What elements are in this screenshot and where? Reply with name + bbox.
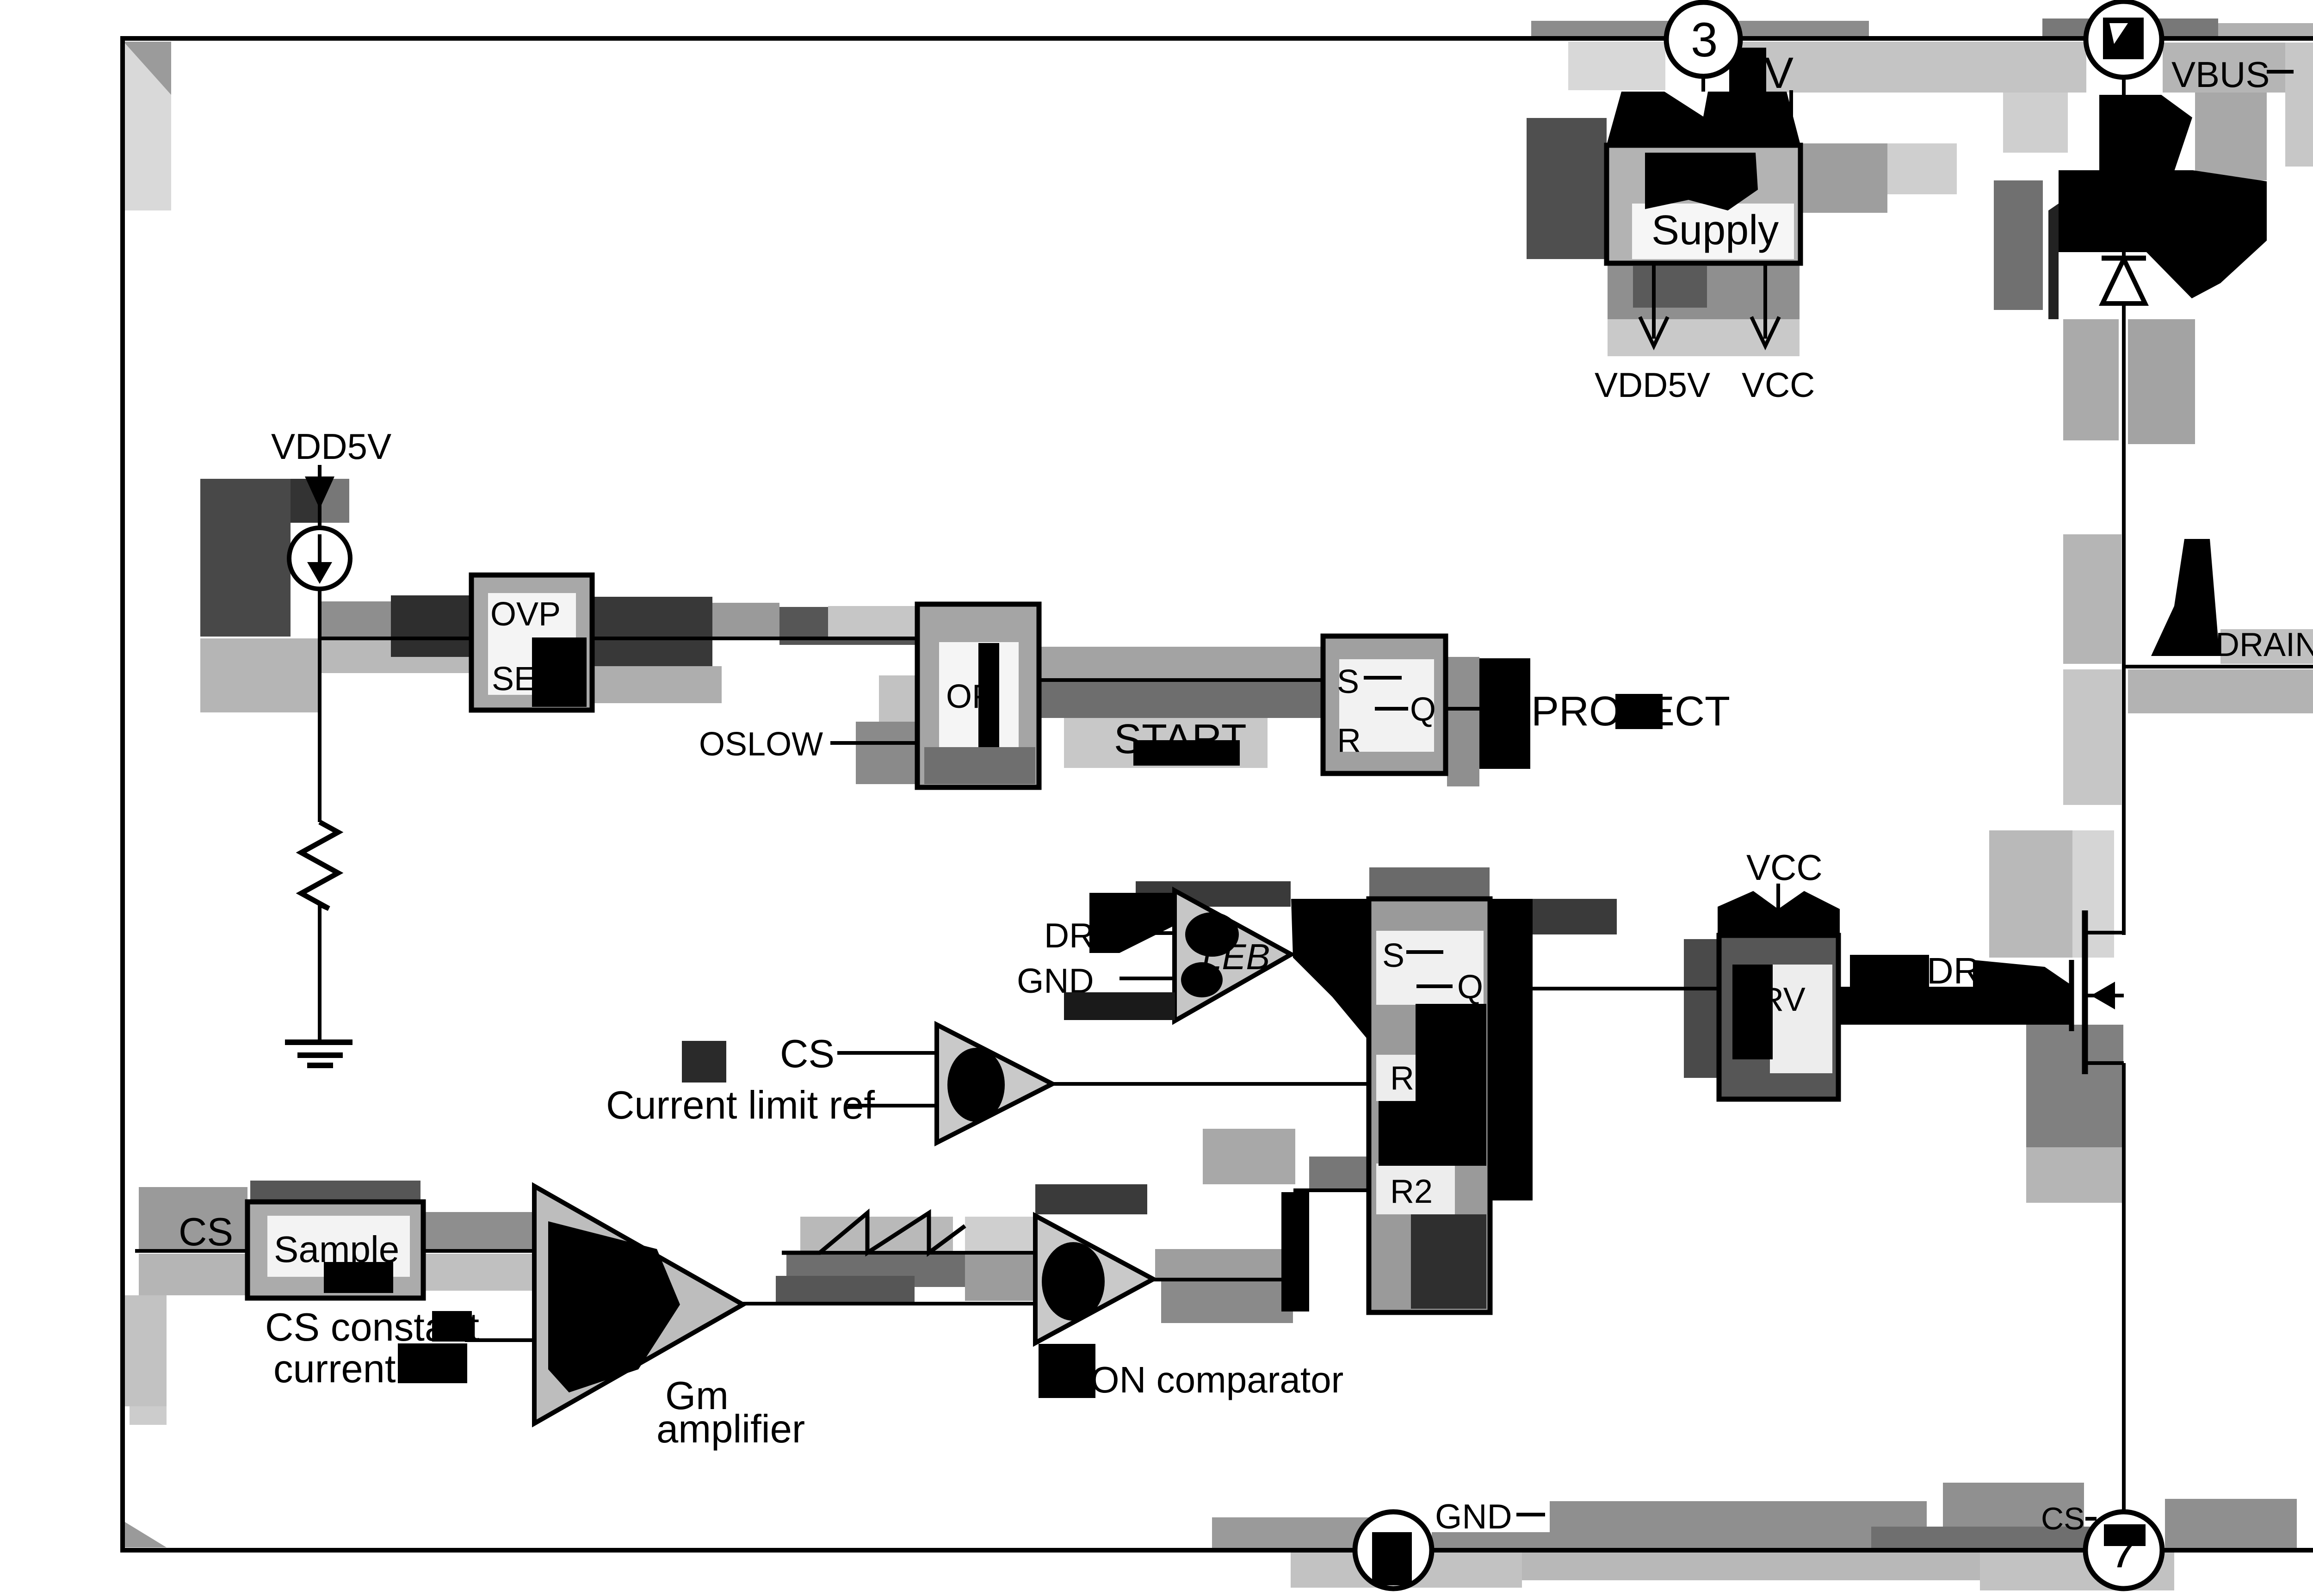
- latch U2 SR: [1369, 899, 1490, 1312]
- wire drain junction to pin 5/6: [2124, 665, 2313, 668]
- wire LEB to latch S: [1291, 953, 1369, 956]
- svg-text:3: 3: [1691, 13, 1718, 67]
- svg-text:Supply: Supply: [1651, 207, 1779, 254]
- svg-text:Q: Q: [1410, 691, 1436, 728]
- current source I1: [289, 528, 350, 589]
- wire sawtooth to TON comparator: [782, 1251, 1035, 1255]
- latch U1 SR: [1323, 636, 1446, 773]
- sawtooth waveform symbol: [782, 1213, 965, 1253]
- wire VCC to DRV: [1776, 884, 1780, 935]
- svg-text:amplifier: amplifier: [656, 1407, 805, 1451]
- wire DR to LEB: [1110, 931, 1175, 935]
- svg-text:CS: CS: [2041, 1501, 2084, 1536]
- wire pin4 VBUS down: [2122, 76, 2126, 258]
- svg-text:DR: DR: [1927, 950, 1980, 991]
- svg-text:TON comparator: TON comparator: [1069, 1359, 1343, 1400]
- wire pin3 HV to Supply block: [1701, 76, 1705, 145]
- comparator current limit: [937, 1025, 1052, 1143]
- wire MOSFET source to CS pin 7: [2122, 1063, 2126, 1512]
- svg-text:R2: R2: [1390, 1173, 1433, 1210]
- svg-text:DR: DR: [1044, 916, 1094, 955]
- arrowhead on VDD5V wire: [305, 476, 334, 509]
- PIN LAYER: [1355, 1, 2313, 1589]
- wire GND to LEB: [1119, 977, 1175, 980]
- pin digit artifact blobs: [2103, 18, 2144, 59]
- wire OVP to OR gate: [592, 637, 917, 640]
- ground: [285, 1039, 353, 1045]
- svg-text:VDD5V: VDD5V: [1595, 365, 1710, 404]
- wire OSLOW to OR gate: [830, 741, 917, 745]
- wire comparator to latch R1: [1052, 1082, 1369, 1086]
- amplifier Gm: [534, 1186, 743, 1423]
- gate OR: [917, 604, 1039, 787]
- wire Supply to VCC output: [1763, 263, 1767, 339]
- svg-text:S: S: [1382, 937, 1404, 974]
- svg-text:OVP: OVP: [490, 596, 561, 633]
- wire DRV to gate (DR): [1838, 991, 2072, 995]
- wire Supply to VDD5V output: [1652, 263, 1656, 339]
- wire latch Q to DRV: [1490, 987, 1719, 990]
- block Sample: [247, 1202, 423, 1298]
- svg-text:OSLOW: OSLOW: [699, 726, 823, 763]
- wire ref to comparator: [847, 1104, 937, 1107]
- wire Sample to Gm amp: [423, 1249, 534, 1253]
- wire CS input to Sample: [135, 1249, 247, 1253]
- wire node to OVP box: [320, 637, 471, 640]
- wire OR to SR latch U1 (START): [1039, 678, 1323, 682]
- svg-text:CS: CS: [179, 1210, 233, 1254]
- pin 3 (HV): [1666, 2, 1740, 76]
- wire ref to Gm amp: [465, 1338, 534, 1342]
- wire VDD5V down to current source: [318, 465, 322, 528]
- transistor Q1 power MOSFET: [2069, 960, 2074, 1031]
- wire TON output to latch R2: [1153, 1190, 1369, 1280]
- wire diode to drain rail: [2122, 303, 2126, 935]
- wire CS to comparator: [837, 1051, 937, 1055]
- comparator LEB: [1175, 891, 1291, 1021]
- block DRV driver: [1719, 935, 1838, 1099]
- svg-text:DRAIN: DRAIN: [2215, 626, 2313, 663]
- wire Q to PROTECT with arrow: [1446, 707, 1483, 711]
- block Supply (startup): [1607, 145, 1800, 263]
- resistor R1: [301, 822, 338, 909]
- svg-text:R: R: [1337, 722, 1361, 759]
- ARTIFACT OVER LAYER: [324, 48, 2267, 1398]
- svg-text:GND: GND: [1435, 1497, 1512, 1536]
- pin 7 (CS): [2085, 1512, 2162, 1589]
- diode D1: [2102, 256, 2146, 261]
- svg-text:Current limit ref: Current limit ref: [606, 1083, 875, 1127]
- wire current source to node: [318, 589, 322, 822]
- pin 2 (GND): [1355, 1512, 1432, 1589]
- block OVP/SEL: [471, 575, 592, 710]
- svg-text:S: S: [1337, 663, 1359, 700]
- svg-text:VDD5V: VDD5V: [271, 426, 391, 467]
- comparator TON: [1035, 1216, 1153, 1343]
- pin 4 (VBUS): [2086, 1, 2162, 77]
- svg-text:Q: Q: [1457, 969, 1483, 1006]
- svg-text:VBUS: VBUS: [2171, 54, 2270, 95]
- wire Gm to TON comparator: [743, 1302, 1035, 1305]
- svg-text:CS: CS: [780, 1032, 835, 1076]
- svg-text:VCC: VCC: [1746, 847, 1823, 888]
- arrowhead into Supply: [1688, 160, 1718, 192]
- svg-text:VCC: VCC: [1742, 365, 1815, 404]
